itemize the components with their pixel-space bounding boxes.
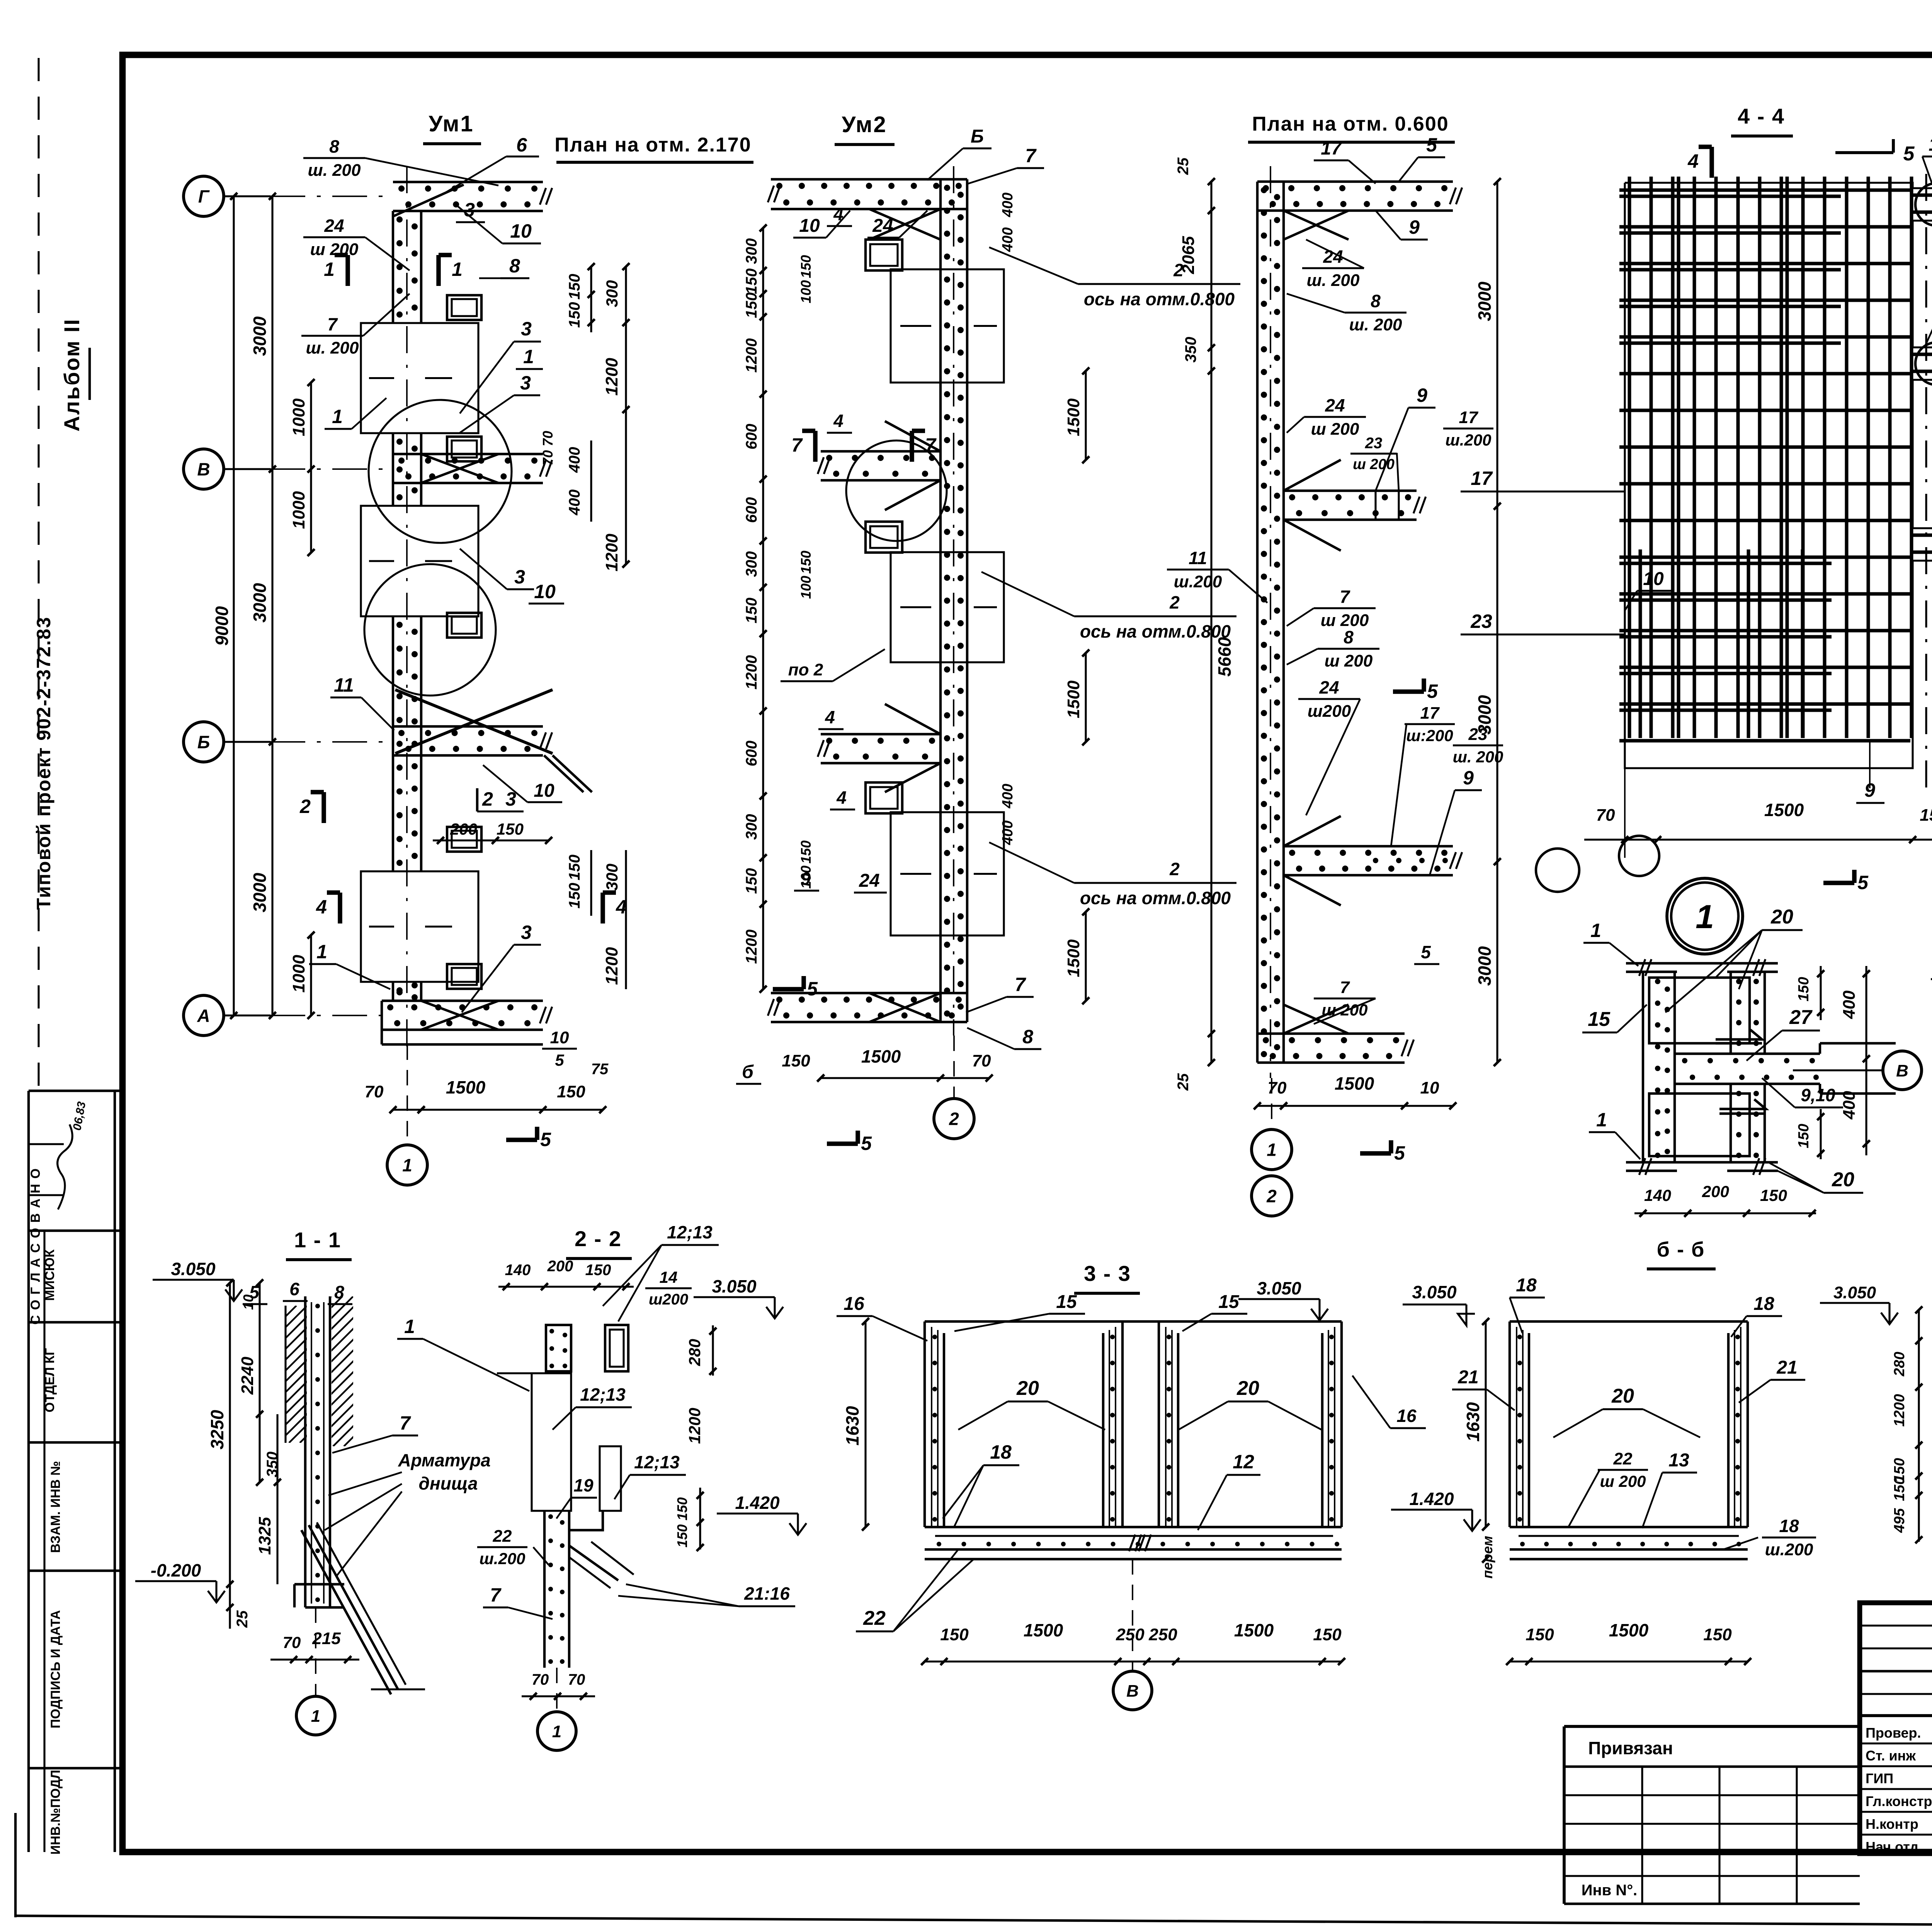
svg-text:3000: 3000 — [250, 872, 270, 912]
svg-text:300: 300 — [603, 280, 621, 307]
svg-text:1: 1 — [311, 1707, 320, 1726]
svg-text:Г: Г — [198, 187, 210, 207]
svg-text:70: 70 — [532, 1671, 549, 1688]
svg-text:150: 150 — [798, 255, 814, 278]
svg-text:25: 25 — [1175, 1073, 1192, 1091]
svg-text:1200: 1200 — [743, 930, 760, 964]
svg-text:ш.200: ш.200 — [1765, 1540, 1813, 1559]
svg-text:16: 16 — [844, 1294, 864, 1314]
svg-text:150: 150 — [743, 598, 760, 624]
svg-text:10: 10 — [534, 581, 556, 602]
svg-text:5: 5 — [1394, 1142, 1405, 1164]
svg-text:б: б — [742, 1062, 754, 1082]
svg-text:ось на отм.0.800: ось на отм.0.800 — [1080, 621, 1231, 641]
svg-text:7: 7 — [1340, 587, 1350, 607]
svg-text:ГИП: ГИП — [1866, 1770, 1893, 1786]
svg-text:12;13: 12;13 — [580, 1384, 626, 1405]
svg-text:1.420: 1.420 — [735, 1493, 780, 1513]
svg-text:400: 400 — [1840, 1091, 1859, 1120]
svg-text:200: 200 — [1702, 1182, 1729, 1201]
svg-text:24: 24 — [859, 871, 879, 891]
svg-text:1630: 1630 — [842, 1406, 862, 1446]
svg-text:1: 1 — [332, 406, 343, 427]
svg-text:1500: 1500 — [1024, 1620, 1063, 1640]
svg-text:70: 70 — [1268, 1078, 1287, 1097]
svg-text:5660: 5660 — [1214, 637, 1235, 677]
svg-text:3: 3 — [514, 566, 525, 588]
svg-text:25: 25 — [234, 1610, 251, 1628]
svg-text:20: 20 — [1770, 906, 1793, 928]
svg-text:ш 200: ш 200 — [1321, 1001, 1367, 1019]
svg-text:3000: 3000 — [1475, 946, 1495, 986]
svg-text:ш 200: ш 200 — [1353, 456, 1395, 473]
svg-text:Б: Б — [197, 732, 210, 752]
svg-text:ш.200: ш.200 — [1174, 572, 1222, 591]
svg-text:21:16: 21:16 — [744, 1583, 790, 1604]
svg-text:8: 8 — [1371, 291, 1381, 311]
svg-text:24: 24 — [872, 216, 893, 236]
svg-text:3.050: 3.050 — [712, 1276, 757, 1296]
svg-text:4 - 4: 4 - 4 — [1738, 104, 1785, 128]
svg-text:150: 150 — [566, 302, 583, 328]
svg-text:ш200: ш200 — [1308, 702, 1351, 721]
svg-text:600: 600 — [743, 424, 760, 450]
svg-text:150: 150 — [566, 855, 583, 881]
svg-text:3250: 3250 — [207, 1410, 227, 1449]
svg-text:3.050: 3.050 — [1257, 1278, 1301, 1298]
svg-text:27: 27 — [1789, 1006, 1813, 1029]
svg-text:7: 7 — [1025, 145, 1037, 167]
svg-text:1: 1 — [404, 1316, 415, 1337]
svg-text:3000: 3000 — [1475, 281, 1495, 321]
svg-text:150: 150 — [782, 1051, 810, 1070]
svg-text:1200: 1200 — [602, 534, 621, 571]
svg-text:7: 7 — [1015, 974, 1026, 995]
svg-text:2240: 2240 — [238, 1357, 257, 1395]
svg-text:1200: 1200 — [743, 655, 760, 690]
svg-text:Б: Б — [971, 126, 984, 147]
svg-text:1200: 1200 — [743, 338, 760, 373]
svg-text:20: 20 — [1016, 1377, 1039, 1400]
svg-text:ш. 200: ш. 200 — [1453, 748, 1503, 766]
svg-text:1630: 1630 — [1463, 1402, 1483, 1442]
svg-text:4: 4 — [316, 896, 327, 918]
svg-text:по 2: по 2 — [788, 660, 823, 679]
svg-text:2: 2 — [1266, 1186, 1277, 1206]
svg-text:1: 1 — [1267, 1140, 1277, 1160]
svg-text:7: 7 — [490, 1584, 502, 1606]
svg-text:5: 5 — [540, 1129, 551, 1150]
svg-text:150: 150 — [566, 274, 583, 300]
svg-text:А: А — [197, 1006, 210, 1026]
svg-text:150: 150 — [557, 1082, 585, 1101]
svg-text:600: 600 — [743, 497, 760, 523]
svg-text:2 - 2: 2 - 2 — [575, 1226, 622, 1251]
svg-text:Гл.констр: Гл.констр — [1866, 1793, 1932, 1809]
svg-text:1.420: 1.420 — [1409, 1489, 1454, 1509]
svg-text:В: В — [1896, 1061, 1908, 1080]
svg-text:150: 150 — [674, 1524, 690, 1548]
svg-text:Ст. инж: Ст. инж — [1866, 1748, 1916, 1764]
svg-text:150: 150 — [585, 1262, 611, 1279]
svg-text:18: 18 — [1753, 1294, 1774, 1314]
svg-text:9000: 9000 — [212, 606, 232, 646]
svg-text:400: 400 — [1840, 990, 1859, 1019]
svg-text:150: 150 — [1891, 1476, 1908, 1501]
svg-text:250: 250 — [1116, 1625, 1145, 1644]
svg-text:150: 150 — [1760, 1186, 1787, 1204]
svg-text:18: 18 — [1516, 1275, 1537, 1296]
svg-text:1000: 1000 — [289, 398, 308, 436]
svg-text:3.050: 3.050 — [171, 1259, 216, 1279]
svg-text:ИНВ.№ПОДЛ: ИНВ.№ПОДЛ — [48, 1770, 63, 1854]
svg-text:10: 10 — [534, 781, 554, 801]
svg-text:24: 24 — [324, 216, 344, 236]
svg-text:23: 23 — [1470, 611, 1492, 632]
svg-text:Типовой проект 902-2-372.83: Типовой проект 902-2-372.83 — [33, 616, 54, 910]
svg-text:14: 14 — [660, 1268, 678, 1286]
svg-text:15: 15 — [1588, 1008, 1611, 1031]
svg-text:ш:200: ш:200 — [1406, 726, 1453, 745]
svg-text:20: 20 — [1832, 1168, 1854, 1191]
svg-text:9,10: 9,10 — [1801, 1085, 1835, 1105]
svg-text:495: 495 — [1891, 1508, 1908, 1533]
svg-text:70: 70 — [365, 1082, 384, 1101]
svg-text:Провер.: Провер. — [1866, 1725, 1921, 1741]
svg-text:8: 8 — [329, 136, 339, 156]
svg-text:2065: 2065 — [1179, 236, 1198, 274]
svg-text:Н.контр: Н.контр — [1866, 1816, 1918, 1832]
svg-text:5: 5 — [1421, 942, 1431, 962]
svg-text:10: 10 — [1420, 1078, 1439, 1097]
svg-text:1: 1 — [402, 1155, 412, 1175]
svg-text:350: 350 — [1182, 337, 1199, 363]
svg-text:Инв N°.: Инв N°. — [1582, 1882, 1638, 1899]
svg-text:12: 12 — [1233, 1451, 1254, 1473]
svg-text:1200: 1200 — [602, 947, 621, 985]
svg-text:150: 150 — [743, 293, 760, 318]
svg-text:400: 400 — [1000, 192, 1016, 217]
svg-text:17: 17 — [1459, 408, 1479, 427]
svg-text:150: 150 — [940, 1625, 969, 1644]
svg-text:1500: 1500 — [1064, 680, 1083, 718]
svg-text:-0.200: -0.200 — [151, 1560, 201, 1580]
svg-text:ш. 200: ш. 200 — [1349, 315, 1403, 334]
svg-text:ш 200: ш 200 — [1600, 1472, 1646, 1490]
svg-text:24: 24 — [1325, 395, 1345, 415]
svg-text:150: 150 — [1796, 1124, 1812, 1148]
svg-text:Ум1: Ум1 — [429, 111, 474, 136]
svg-text:9: 9 — [1409, 216, 1420, 238]
svg-text:В: В — [197, 459, 210, 480]
svg-text:10: 10 — [1929, 134, 1932, 155]
svg-text:Альбом II: Альбом II — [60, 318, 84, 432]
svg-text:5: 5 — [1426, 134, 1437, 156]
svg-text:7: 7 — [791, 434, 803, 456]
svg-text:150: 150 — [743, 868, 760, 894]
svg-text:5: 5 — [807, 978, 818, 1000]
svg-text:2: 2 — [299, 796, 311, 817]
svg-text:150: 150 — [798, 840, 814, 864]
svg-text:100: 100 — [798, 280, 814, 303]
svg-text:23: 23 — [1365, 435, 1383, 452]
svg-text:1200: 1200 — [685, 1408, 704, 1444]
svg-text:1000: 1000 — [289, 491, 308, 529]
svg-text:3000: 3000 — [250, 583, 270, 622]
svg-text:400: 400 — [1000, 784, 1016, 808]
svg-text:Нач.отд.: Нач.отд. — [1866, 1839, 1922, 1855]
svg-text:1: 1 — [316, 941, 327, 963]
svg-text:22: 22 — [1613, 1449, 1633, 1468]
svg-text:11: 11 — [334, 674, 354, 696]
svg-text:150: 150 — [1920, 806, 1932, 825]
svg-text:300: 300 — [743, 238, 760, 264]
svg-text:2: 2 — [482, 788, 493, 810]
svg-text:16: 16 — [1396, 1406, 1417, 1426]
svg-text:8: 8 — [509, 255, 520, 277]
svg-text:9: 9 — [1417, 384, 1427, 406]
svg-text:150: 150 — [566, 883, 583, 909]
svg-text:9: 9 — [801, 869, 811, 889]
svg-text:ш 200: ш 200 — [1325, 651, 1373, 670]
svg-text:250: 250 — [1148, 1625, 1177, 1644]
svg-text:10: 10 — [799, 216, 820, 236]
svg-text:1: 1 — [1696, 898, 1714, 935]
svg-text:6: 6 — [289, 1279, 299, 1299]
svg-text:ш 200: ш 200 — [1311, 420, 1359, 439]
svg-text:1500: 1500 — [1764, 800, 1804, 820]
svg-text:150: 150 — [1526, 1625, 1554, 1644]
svg-text:150: 150 — [1796, 977, 1812, 1001]
svg-text:План на отм. 0.600: План на отм. 0.600 — [1252, 113, 1449, 135]
svg-text:6: 6 — [516, 134, 527, 156]
svg-text:12;13: 12;13 — [667, 1222, 713, 1242]
svg-text:10: 10 — [240, 1294, 256, 1310]
svg-text:1200: 1200 — [602, 358, 621, 396]
svg-text:4: 4 — [1687, 150, 1699, 172]
svg-text:ш. 200: ш. 200 — [308, 161, 361, 180]
svg-text:5: 5 — [1427, 680, 1438, 702]
svg-text:400: 400 — [1000, 820, 1016, 845]
svg-text:В: В — [1126, 1682, 1139, 1701]
svg-text:Привязан: Привязан — [1588, 1738, 1673, 1758]
svg-text:1325: 1325 — [255, 1517, 274, 1555]
svg-text:24: 24 — [1319, 677, 1339, 697]
svg-text:13: 13 — [1668, 1450, 1689, 1471]
svg-text:8: 8 — [1344, 627, 1354, 647]
svg-text:3000: 3000 — [1475, 695, 1495, 735]
svg-text:15: 15 — [1056, 1292, 1077, 1312]
svg-text:ш. 200: ш. 200 — [306, 338, 359, 357]
svg-text:1500: 1500 — [1335, 1073, 1374, 1094]
svg-text:7: 7 — [327, 314, 338, 334]
svg-text:1200: 1200 — [1891, 1394, 1908, 1427]
svg-text:17: 17 — [1420, 704, 1440, 723]
svg-text:3: 3 — [521, 922, 532, 943]
svg-text:ш. 200: ш. 200 — [1307, 271, 1360, 290]
svg-text:ш.200: ш.200 — [1445, 431, 1491, 449]
svg-text:3 - 3: 3 - 3 — [1084, 1261, 1131, 1286]
svg-text:4: 4 — [833, 204, 844, 224]
svg-text:5: 5 — [861, 1133, 872, 1154]
svg-text:140: 140 — [505, 1262, 531, 1279]
svg-text:280: 280 — [1891, 1352, 1908, 1376]
svg-text:75: 75 — [591, 1061, 609, 1078]
svg-text:1500: 1500 — [1064, 398, 1083, 436]
svg-text:1: 1 — [324, 259, 335, 280]
svg-text:3: 3 — [464, 199, 475, 221]
svg-text:С О Г Л А С О В А Н О: С О Г Л А С О В А Н О — [28, 1168, 43, 1325]
svg-text:2: 2 — [1169, 859, 1180, 879]
svg-text:4: 4 — [833, 411, 844, 431]
svg-text:9: 9 — [1463, 767, 1474, 789]
svg-text:70: 70 — [283, 1633, 301, 1651]
svg-text:22: 22 — [863, 1607, 886, 1629]
svg-text:11: 11 — [1189, 548, 1207, 568]
svg-text:280: 280 — [685, 1339, 704, 1366]
svg-text:3000: 3000 — [250, 316, 270, 356]
svg-text:5: 5 — [1857, 872, 1869, 893]
svg-text:днища: днища — [419, 1473, 478, 1493]
svg-text:22: 22 — [493, 1527, 512, 1546]
svg-text:1 - 1: 1 - 1 — [294, 1228, 341, 1252]
svg-text:150: 150 — [798, 551, 814, 574]
svg-text:1: 1 — [552, 1722, 561, 1741]
svg-text:ш200: ш200 — [649, 1291, 688, 1308]
svg-text:300: 300 — [743, 551, 760, 577]
svg-text:150: 150 — [497, 820, 524, 838]
svg-text:17: 17 — [1471, 468, 1493, 489]
svg-text:Арматура: Арматура — [398, 1450, 490, 1470]
svg-text:17: 17 — [1321, 138, 1342, 159]
svg-text:21: 21 — [1458, 1367, 1478, 1388]
svg-text:1: 1 — [523, 346, 534, 367]
svg-text:1: 1 — [452, 259, 463, 280]
svg-text:7: 7 — [925, 434, 937, 456]
svg-text:ПОДПИСЬ И ДАТА: ПОДПИСЬ И ДАТА — [48, 1610, 63, 1728]
svg-text:300: 300 — [603, 864, 621, 891]
svg-text:70: 70 — [1596, 806, 1615, 825]
svg-text:10: 10 — [510, 220, 532, 242]
svg-text:3: 3 — [520, 372, 531, 394]
svg-text:План на отм. 2.170: План на отм. 2.170 — [554, 134, 751, 156]
svg-text:4: 4 — [825, 707, 835, 727]
svg-text:12;13: 12;13 — [634, 1452, 680, 1472]
svg-text:4: 4 — [836, 787, 847, 808]
svg-text:7: 7 — [1340, 978, 1350, 997]
svg-text:15: 15 — [1218, 1292, 1240, 1312]
svg-text:400: 400 — [1000, 227, 1016, 252]
svg-text:70: 70 — [972, 1051, 991, 1070]
svg-text:7: 7 — [400, 1412, 411, 1434]
svg-text:8: 8 — [1022, 1026, 1033, 1048]
svg-text:МИСЮК: МИСЮК — [43, 1249, 57, 1301]
svg-text:21: 21 — [1776, 1357, 1797, 1378]
svg-text:150: 150 — [674, 1497, 690, 1520]
svg-text:1: 1 — [1590, 920, 1601, 941]
svg-text:600: 600 — [743, 741, 760, 767]
svg-text:70: 70 — [568, 1671, 585, 1688]
svg-text:19: 19 — [573, 1475, 594, 1495]
svg-text:200: 200 — [547, 1258, 573, 1275]
svg-text:25: 25 — [1175, 157, 1192, 175]
svg-text:70: 70 — [540, 431, 556, 446]
svg-text:3: 3 — [521, 318, 532, 340]
svg-text:3.050: 3.050 — [1412, 1282, 1457, 1302]
svg-text:3.050: 3.050 — [1833, 1283, 1876, 1302]
svg-text:1500: 1500 — [861, 1046, 901, 1066]
svg-text:ось на отм.0.800: ось на отм.0.800 — [1080, 888, 1231, 908]
svg-text:5: 5 — [555, 1051, 564, 1069]
svg-text:150: 150 — [1313, 1625, 1342, 1644]
svg-text:5: 5 — [1903, 143, 1915, 165]
svg-text:100: 100 — [798, 576, 814, 599]
svg-text:70: 70 — [540, 450, 556, 466]
svg-text:20: 20 — [1611, 1385, 1634, 1407]
svg-text:400: 400 — [566, 447, 583, 473]
svg-text:300: 300 — [743, 814, 760, 840]
svg-text:1500: 1500 — [1609, 1620, 1649, 1640]
svg-text:10: 10 — [1643, 569, 1664, 589]
svg-text:1500: 1500 — [1234, 1620, 1274, 1640]
svg-text:200: 200 — [450, 820, 477, 838]
svg-text:Ум2: Ум2 — [842, 112, 887, 137]
svg-text:б - б: б - б — [1657, 1238, 1705, 1261]
svg-text:20: 20 — [1236, 1377, 1259, 1400]
svg-text:150: 150 — [1703, 1625, 1732, 1644]
svg-text:140: 140 — [1644, 1186, 1671, 1204]
svg-text:ш 200: ш 200 — [310, 240, 359, 259]
svg-text:1500: 1500 — [446, 1077, 486, 1097]
svg-text:ВЗАМ. ИНВ №: ВЗАМ. ИНВ № — [48, 1461, 63, 1553]
svg-text:10: 10 — [550, 1028, 569, 1047]
svg-text:1000: 1000 — [289, 955, 308, 993]
svg-text:18: 18 — [1779, 1516, 1799, 1536]
svg-text:150: 150 — [743, 269, 760, 294]
svg-text:ш.200: ш.200 — [479, 1549, 525, 1568]
svg-text:2: 2 — [1169, 592, 1180, 612]
svg-text:1: 1 — [1596, 1109, 1607, 1131]
svg-text:ОТДЕЛ КГ: ОТДЕЛ КГ — [43, 1348, 57, 1413]
svg-text:2: 2 — [949, 1109, 959, 1129]
svg-text:1500: 1500 — [1064, 939, 1083, 977]
svg-text:18: 18 — [990, 1441, 1012, 1463]
svg-text:400: 400 — [566, 490, 583, 516]
